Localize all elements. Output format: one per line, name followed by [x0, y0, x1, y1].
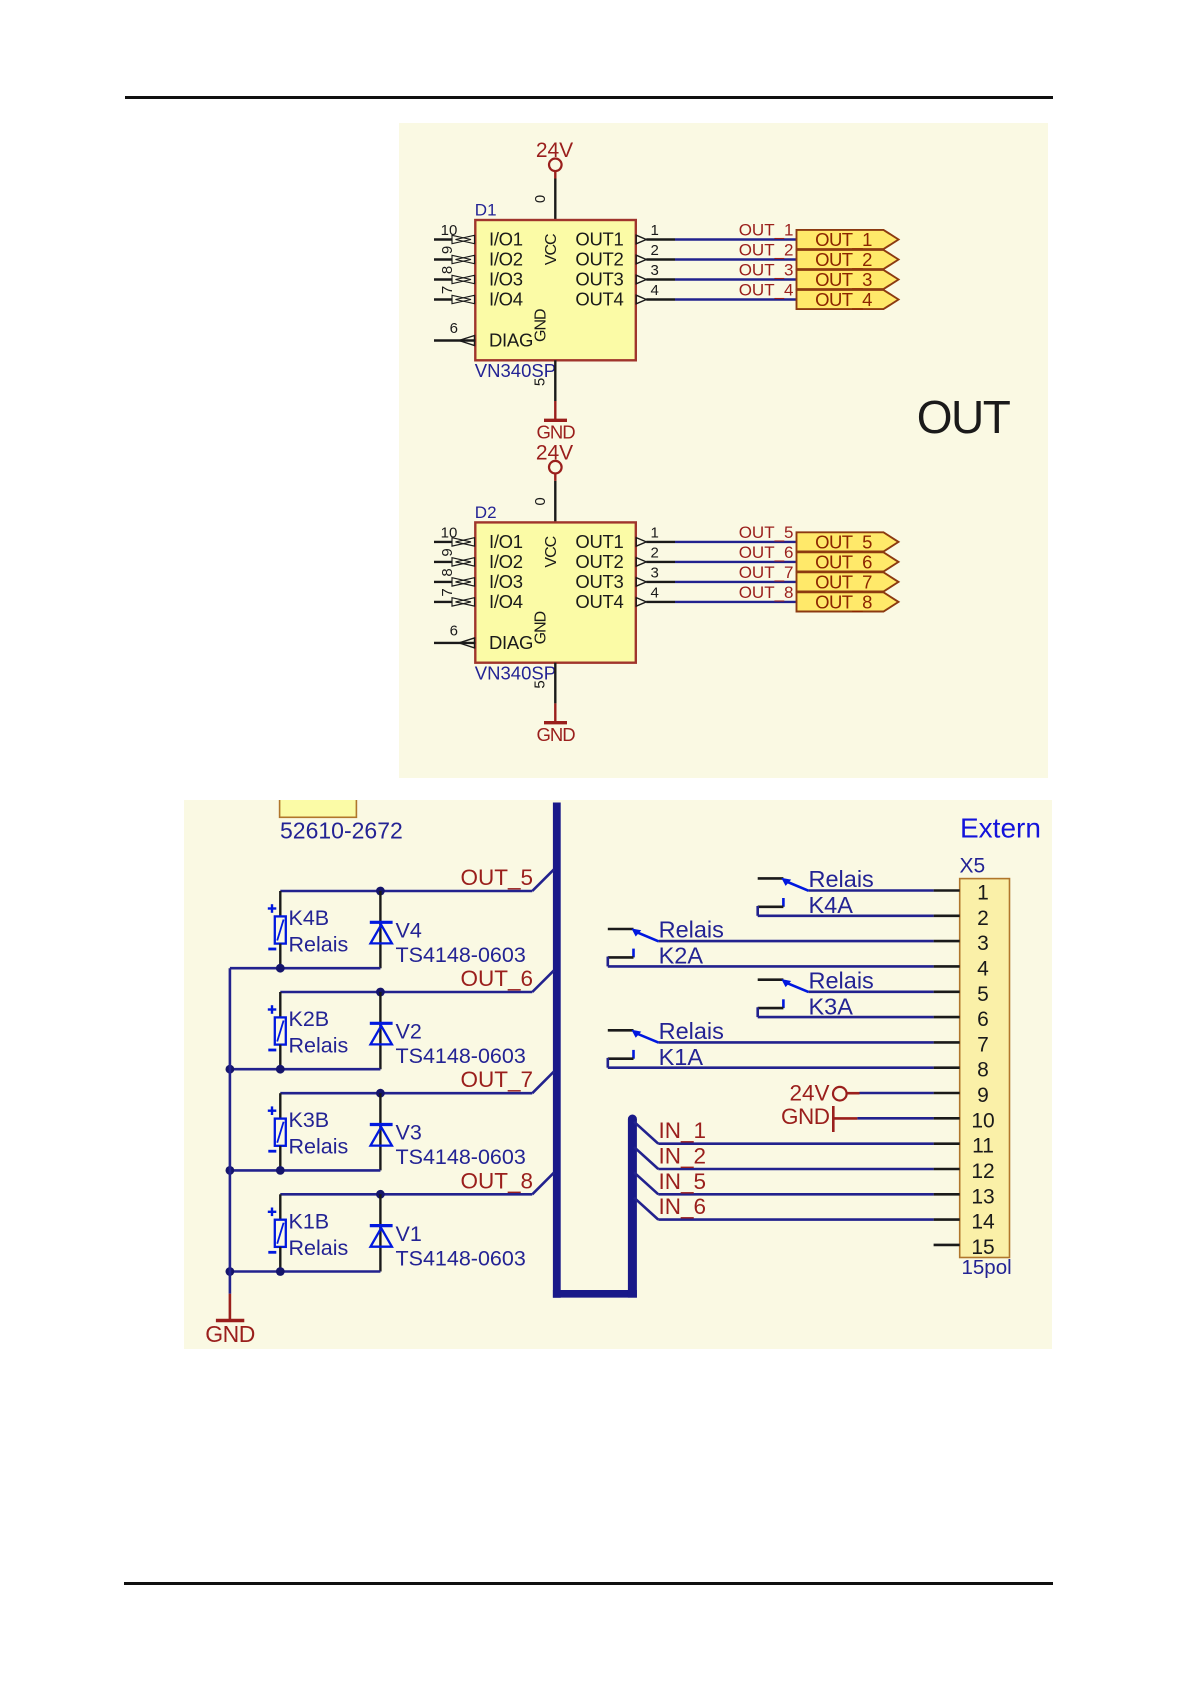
svg-text:0: 0: [532, 195, 549, 203]
svg-text:OUT_5: OUT_5: [815, 531, 872, 553]
svg-text:IN_2: IN_2: [659, 1144, 707, 1169]
svg-text:7: 7: [439, 588, 456, 596]
svg-text:V1: V1: [396, 1222, 422, 1246]
svg-text:3: 3: [651, 262, 659, 279]
svg-text:OUT_2: OUT_2: [739, 241, 794, 260]
svg-text:K3B: K3B: [289, 1108, 330, 1132]
svg-text:K2A: K2A: [659, 943, 704, 969]
svg-text:I/O4: I/O4: [489, 591, 523, 612]
svg-text:D1: D1: [475, 201, 497, 220]
svg-text:11: 11: [972, 1135, 994, 1158]
svg-text:K4A: K4A: [809, 892, 854, 918]
svg-text:8: 8: [439, 266, 456, 274]
svg-text:TS4148-0603: TS4148-0603: [396, 1246, 526, 1270]
svg-text:K2B: K2B: [289, 1007, 330, 1031]
svg-text:5: 5: [532, 378, 549, 386]
svg-text:2: 2: [651, 242, 659, 259]
svg-text:DIAG: DIAG: [489, 632, 533, 653]
svg-text:I/O4: I/O4: [489, 289, 523, 310]
svg-text:6: 6: [977, 1008, 989, 1031]
svg-text:OUT_1: OUT_1: [739, 221, 794, 240]
svg-text:10: 10: [441, 222, 458, 239]
svg-text:6: 6: [450, 320, 458, 337]
svg-text:8: 8: [439, 568, 456, 576]
svg-text:OUT_5: OUT_5: [460, 865, 533, 890]
svg-text:I/O3: I/O3: [489, 269, 523, 290]
svg-text:3: 3: [651, 564, 659, 581]
svg-text:K1B: K1B: [289, 1209, 330, 1233]
svg-text:24V: 24V: [789, 1081, 829, 1106]
svg-text:OUT_2: OUT_2: [815, 249, 872, 271]
svg-text:OUT1: OUT1: [575, 229, 623, 250]
svg-text:15pol: 15pol: [962, 1256, 1012, 1279]
svg-text:I/O2: I/O2: [489, 551, 523, 572]
svg-text:8: 8: [977, 1059, 989, 1082]
svg-text:OUT_7: OUT_7: [460, 1067, 533, 1092]
svg-text:OUT2: OUT2: [575, 551, 623, 572]
svg-text:OUT3: OUT3: [575, 571, 623, 592]
svg-text:OUT_1: OUT_1: [815, 229, 872, 251]
svg-text:X5: X5: [960, 855, 986, 878]
svg-text:V3: V3: [396, 1121, 422, 1145]
svg-text:GND: GND: [536, 724, 575, 745]
svg-text:VCC: VCC: [543, 234, 560, 265]
svg-text:5: 5: [532, 680, 549, 688]
svg-text:Relais: Relais: [659, 917, 724, 943]
svg-text:I/O1: I/O1: [489, 229, 523, 250]
svg-text:12: 12: [971, 1160, 994, 1183]
svg-text:OUT_8: OUT_8: [460, 1168, 533, 1193]
svg-text:2: 2: [651, 544, 659, 561]
svg-text:Relais: Relais: [289, 1236, 349, 1260]
svg-text:Extern: Extern: [960, 813, 1041, 844]
svg-text:OUT2: OUT2: [575, 249, 623, 270]
svg-text:Relais: Relais: [289, 1034, 349, 1058]
svg-text:Relais: Relais: [289, 1135, 349, 1159]
svg-text:7: 7: [439, 286, 456, 294]
svg-text:OUT: OUT: [917, 391, 1011, 443]
svg-text:OUT1: OUT1: [575, 531, 623, 552]
svg-text:13: 13: [971, 1185, 994, 1208]
svg-text:IN_5: IN_5: [659, 1169, 707, 1194]
svg-text:OUT_8: OUT_8: [815, 591, 872, 613]
svg-text:OUT_5: OUT_5: [739, 523, 794, 542]
svg-text:1: 1: [977, 882, 989, 905]
svg-text:10: 10: [441, 524, 458, 541]
svg-text:VCC: VCC: [543, 536, 560, 567]
svg-text:OUT_7: OUT_7: [739, 563, 794, 582]
svg-text:OUT3: OUT3: [575, 269, 623, 290]
svg-text:9: 9: [439, 548, 456, 556]
svg-text:GND: GND: [536, 422, 575, 443]
svg-text:GND: GND: [781, 1104, 830, 1129]
svg-text:TS4148-0603: TS4148-0603: [396, 1044, 526, 1068]
svg-text:OUT_3: OUT_3: [815, 269, 872, 291]
svg-text:4: 4: [651, 584, 659, 601]
svg-text:10: 10: [971, 1109, 994, 1132]
svg-text:OUT_4: OUT_4: [815, 289, 872, 311]
svg-text:14: 14: [971, 1211, 995, 1234]
svg-text:Relais: Relais: [289, 933, 349, 957]
svg-text:1: 1: [651, 222, 659, 239]
svg-text:IN_1: IN_1: [659, 1118, 707, 1143]
svg-text:OUT_6: OUT_6: [739, 543, 794, 562]
svg-text:5: 5: [977, 983, 989, 1006]
svg-text:IN_6: IN_6: [659, 1194, 707, 1219]
svg-text:7: 7: [977, 1033, 989, 1056]
svg-text:OUT4: OUT4: [575, 591, 623, 612]
svg-text:9: 9: [439, 246, 456, 254]
svg-text:V2: V2: [396, 1020, 422, 1044]
svg-text:TS4148-0603: TS4148-0603: [396, 1145, 526, 1169]
svg-text:K3A: K3A: [809, 993, 854, 1019]
svg-text:1: 1: [651, 524, 659, 541]
svg-text:OUT_6: OUT_6: [460, 966, 533, 991]
svg-text:0: 0: [532, 497, 549, 505]
svg-text:DIAG: DIAG: [489, 330, 533, 351]
svg-text:I/O2: I/O2: [489, 249, 523, 270]
svg-text:Relais: Relais: [809, 866, 874, 892]
svg-text:OUT_8: OUT_8: [739, 583, 794, 602]
svg-text:GND: GND: [533, 611, 550, 644]
svg-text:K1A: K1A: [659, 1044, 704, 1070]
svg-text:OUT4: OUT4: [575, 289, 623, 310]
svg-text:OUT_7: OUT_7: [815, 571, 872, 593]
svg-text:6: 6: [450, 622, 458, 639]
svg-text:GND: GND: [533, 309, 550, 342]
svg-text:K4B: K4B: [289, 906, 330, 930]
svg-text:D2: D2: [475, 503, 497, 522]
svg-text:V4: V4: [396, 919, 422, 943]
svg-text:I/O1: I/O1: [489, 531, 523, 552]
svg-text:4: 4: [977, 957, 989, 980]
svg-text:Relais: Relais: [809, 967, 874, 993]
svg-text:OUT_4: OUT_4: [739, 281, 794, 300]
svg-text:52610-2672: 52610-2672: [280, 818, 403, 844]
svg-text:9: 9: [977, 1084, 989, 1107]
svg-text:I/O3: I/O3: [489, 571, 523, 592]
svg-text:4: 4: [651, 282, 659, 299]
svg-text:GND: GND: [205, 1321, 255, 1347]
svg-text:Relais: Relais: [659, 1018, 724, 1044]
svg-text:3: 3: [977, 932, 989, 955]
svg-text:TS4148-0603: TS4148-0603: [396, 943, 526, 967]
svg-text:2: 2: [977, 907, 989, 930]
svg-text:OUT_6: OUT_6: [815, 551, 872, 573]
svg-text:OUT_3: OUT_3: [739, 261, 794, 280]
